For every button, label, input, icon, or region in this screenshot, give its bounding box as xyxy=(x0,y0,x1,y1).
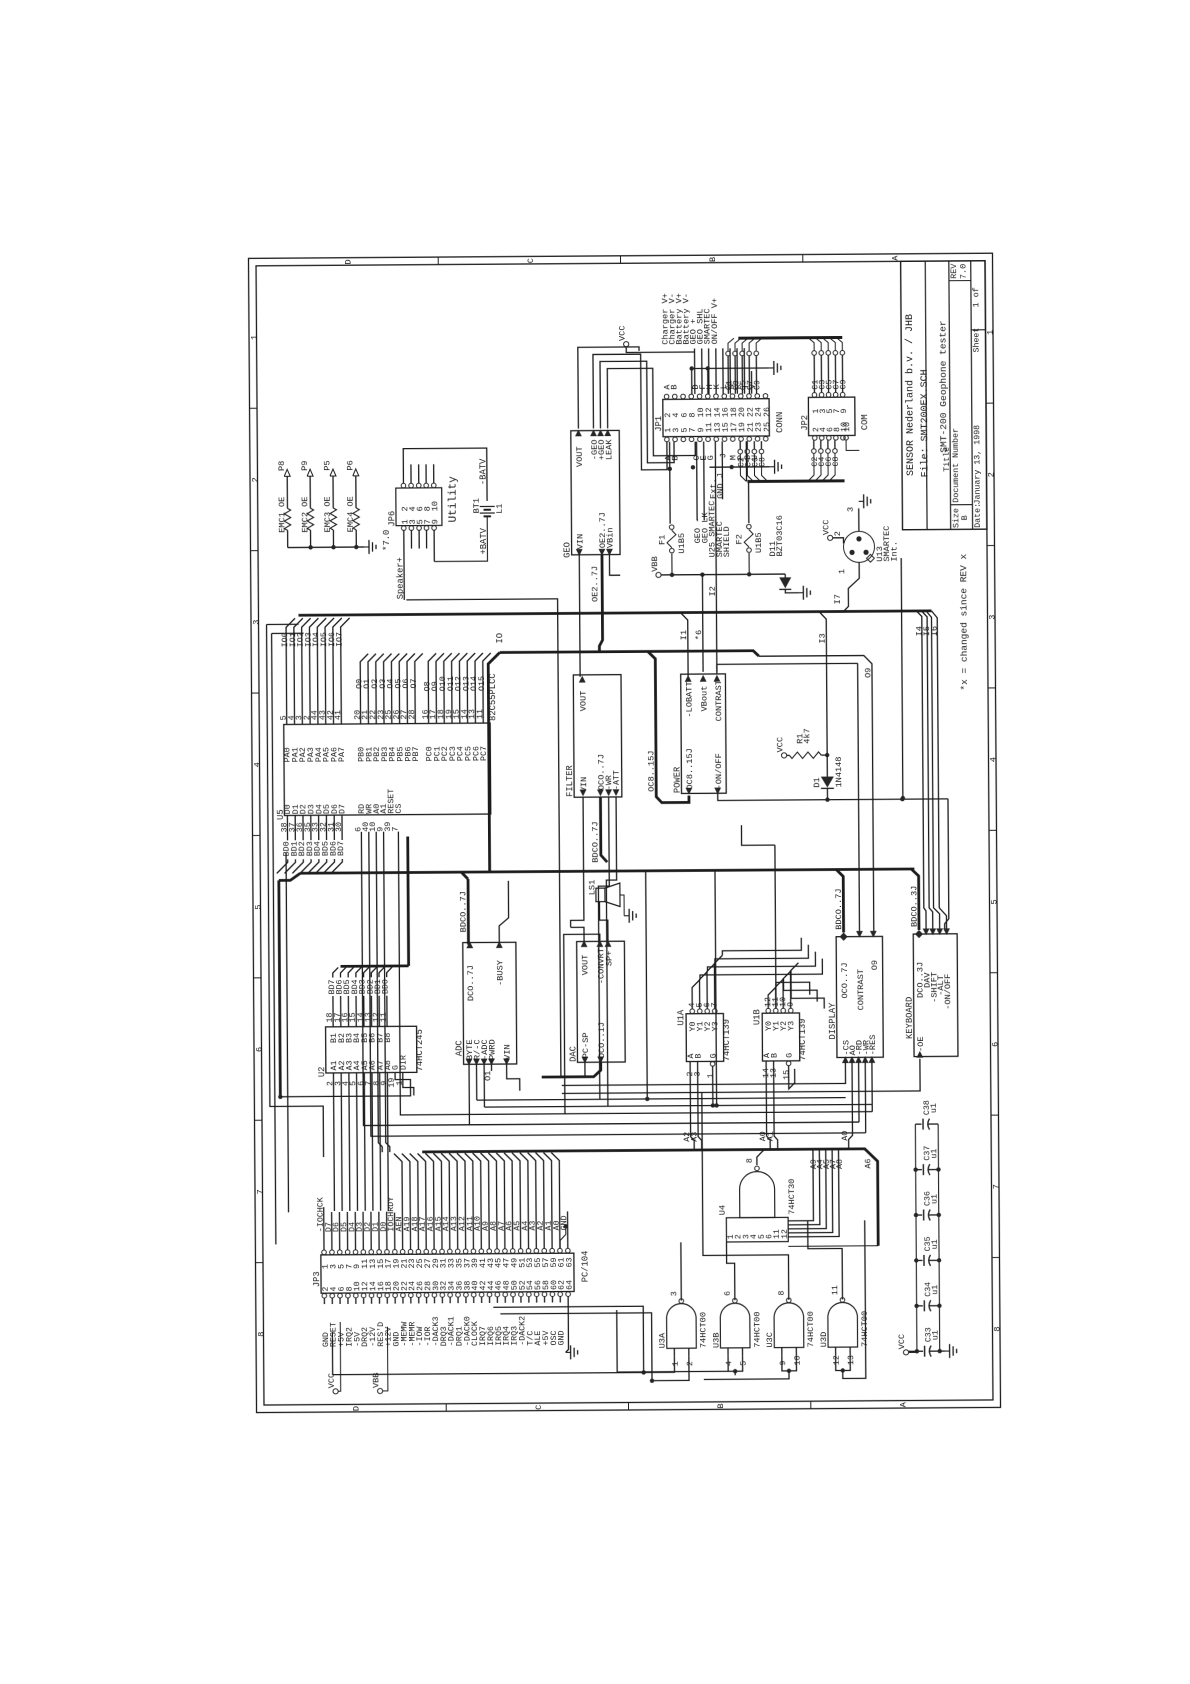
svg-text:U3C: U3C xyxy=(765,1332,775,1348)
connector JP3 PC/104 xyxy=(321,1253,574,1293)
svg-text:U3B: U3B xyxy=(711,1332,721,1348)
svg-text:VIN: VIN xyxy=(579,777,589,793)
svg-text:63: 63 xyxy=(565,1257,574,1267)
svg-text:1: 1 xyxy=(706,1073,715,1078)
block KEYBOARD xyxy=(913,934,958,1057)
svg-text:3: 3 xyxy=(670,1291,679,1296)
svg-text:P6: P6 xyxy=(345,460,355,470)
U3B output up xyxy=(726,1242,734,1300)
FILTER pin VOUT xyxy=(579,676,586,683)
svg-text:U1A: U1A xyxy=(676,1009,686,1026)
svg-text:JP3: JP3 xyxy=(312,1271,322,1287)
svg-text:COM: COM xyxy=(860,414,870,430)
svg-text:u1: u1 xyxy=(930,1149,939,1159)
svg-text:PC-SP: PC-SP xyxy=(581,1032,591,1058)
DAC pin OC0..1J xyxy=(597,1057,604,1064)
svg-text:64: 64 xyxy=(566,1280,575,1290)
svg-text:C8: C8 xyxy=(832,456,841,466)
thick cable bar top xyxy=(738,336,842,340)
A bus taps to U4 inputs xyxy=(788,1149,814,1221)
svg-text:u1: u1 xyxy=(930,1103,939,1113)
svg-text:Utility: Utility xyxy=(448,476,460,523)
gate U3A 74HCT00 xyxy=(666,1304,696,1349)
svg-text:2: 2 xyxy=(833,531,843,536)
JP2 C1..C9 wires xyxy=(812,351,817,356)
wire O9 net down to DISPLAY xyxy=(759,655,874,934)
svg-text:January 13, 1998: January 13, 1998 xyxy=(973,425,983,505)
wire GEO VIN to FILTER VOUT xyxy=(578,555,581,677)
VCC symbol at JP3 xyxy=(333,1389,338,1394)
svg-text:CONTRAST: CONTRAST xyxy=(856,969,866,1010)
capacitor C35 xyxy=(916,1259,922,1261)
connector U13 SMARTEC Int. xyxy=(843,531,874,562)
DAC pin VOUT xyxy=(581,940,588,947)
ADC pin -BUSY xyxy=(496,941,503,948)
frame zone ticks and numbers xyxy=(250,407,257,409)
capacitor C33 xyxy=(917,1350,923,1352)
svg-text:O9: O9 xyxy=(870,960,880,970)
svg-text:4: 4 xyxy=(725,1361,734,1366)
bus BOC0..3J into KEYBOARD xyxy=(911,869,919,930)
svg-text:OC8..15J: OC8..15J xyxy=(685,748,695,789)
FILTER pin VIN xyxy=(580,790,587,797)
svg-text:ON/OFF V+: ON/OFF V+ xyxy=(710,298,720,344)
svg-text:P5: P5 xyxy=(323,460,333,470)
ground cap bank xyxy=(940,1350,945,1352)
svg-text:6: 6 xyxy=(254,1047,264,1052)
svg-text:26: 26 xyxy=(763,407,772,417)
bus BDC0..7J down from FILTER xyxy=(600,797,607,862)
U13 pin 1 wire I7 xyxy=(842,562,859,612)
svg-text:B: B xyxy=(708,257,718,262)
U1B A/B wires to A bus xyxy=(766,1061,770,1150)
bus OC0..1J thick xyxy=(542,1062,601,1077)
svg-text:8: 8 xyxy=(993,1326,1003,1331)
U13 pin 3 to ground xyxy=(858,508,860,531)
wire VCC to +5V xyxy=(338,1322,341,1391)
U3D inputs wires xyxy=(836,1355,851,1371)
bus OE2..7J thick from GEO block xyxy=(599,555,603,652)
svg-text:2: 2 xyxy=(250,477,260,482)
wire VBB to +12V xyxy=(382,1327,388,1391)
svg-text:Y3: Y3 xyxy=(787,1021,796,1031)
FILTER pin WR xyxy=(605,789,612,796)
svg-text:8: 8 xyxy=(746,1158,755,1163)
corridor verticals mid xyxy=(646,871,648,1099)
POWER pin CONTRAST xyxy=(714,675,721,682)
svg-text:74HCT139: 74HCT139 xyxy=(722,1019,732,1061)
VBB symbol xyxy=(656,572,661,577)
svg-text:3: 3 xyxy=(251,620,261,625)
svg-text:A0: A0 xyxy=(841,1131,850,1141)
JP3 A0 wire xyxy=(560,1226,566,1248)
svg-text:U1B5: U1B5 xyxy=(677,533,687,554)
svg-text:VOUT: VOUT xyxy=(579,691,589,712)
svg-text:15: 15 xyxy=(782,1070,791,1080)
svg-text:OCO..7J: OCO..7J xyxy=(840,962,850,998)
JP2 pin10 wire xyxy=(846,440,859,450)
svg-text:u1: u1 xyxy=(932,1330,941,1340)
POWER pin -LOBATT xyxy=(685,675,692,682)
svg-text:Speaker+: Speaker+ xyxy=(396,557,406,599)
svg-text:U3D: U3D xyxy=(819,1332,829,1348)
svg-text:BD0: BD0 xyxy=(382,979,391,994)
svg-text:6: 6 xyxy=(991,1042,1001,1047)
ground D11 xyxy=(798,592,803,594)
mid horizontal nets RD/WR/CS xyxy=(361,828,859,1125)
VCC to cap bank xyxy=(909,1350,917,1352)
wire RESET long xyxy=(332,1330,643,1375)
connector JP2 COM xyxy=(808,397,855,436)
thick cable bar bottom xyxy=(747,479,844,483)
svg-text:B: B xyxy=(694,1053,703,1058)
svg-text:GEO: GEO xyxy=(562,542,572,558)
svg-text:4: 4 xyxy=(252,762,262,767)
port arrow P8 xyxy=(284,469,290,476)
U3C inputs wires xyxy=(782,1355,797,1371)
JP1 top pin wires to signal labels xyxy=(694,348,696,394)
svg-text:POWER: POWER xyxy=(673,766,683,793)
svg-text:VIN: VIN xyxy=(503,1044,513,1060)
border frame inner xyxy=(256,261,993,1405)
svg-text:I2: I2 xyxy=(708,586,718,596)
svg-text:D: D xyxy=(344,259,354,264)
wires JP1 bottom to labels xyxy=(696,442,699,521)
JP3 IOW IOR wires to gates xyxy=(493,1306,643,1373)
U1A G wire xyxy=(712,1066,714,1105)
svg-text:B: B xyxy=(960,515,970,520)
title block date/sheet row xyxy=(971,329,985,331)
ADC bottom wires xyxy=(468,1064,470,1124)
JP1 pin circles and numbers xyxy=(664,394,669,399)
svg-text:VCC: VCC xyxy=(775,737,785,753)
svg-text:JP6: JP6 xyxy=(387,511,397,527)
wire LS1 to ground xyxy=(620,895,624,916)
svg-text:U1B: U1B xyxy=(752,1009,762,1025)
battery BT1 / L1 xyxy=(480,505,495,507)
svg-text:10: 10 xyxy=(794,1355,803,1365)
wire ON/OFF net xyxy=(718,792,948,801)
wire corridor x775 from CONN area xyxy=(775,845,776,1008)
svg-text:A1: A1 xyxy=(767,1131,776,1141)
ADC pin DC0..7J xyxy=(466,941,473,948)
svg-text:PB7: PB7 xyxy=(412,746,421,761)
svg-text:G: G xyxy=(785,1053,794,1058)
svg-text:F2: F2 xyxy=(735,534,745,544)
svg-text:I6: I6 xyxy=(930,626,940,636)
FILTER pin OC0..7J xyxy=(597,789,604,796)
svg-text:BDCO..7J: BDCO..7J xyxy=(834,888,844,929)
U3A inputs wires xyxy=(644,1356,675,1372)
svg-text:12: 12 xyxy=(833,1355,842,1365)
svg-text:KEYBOARD: KEYBOARD xyxy=(905,997,915,1039)
JP6 pin circles top row xyxy=(401,483,406,488)
IC U2 74HCT245 xyxy=(326,1026,417,1073)
svg-text:B: B xyxy=(770,1053,779,1058)
JP1 bottom C2..C8 cable xyxy=(738,449,743,454)
DISPLAY bottom wires xyxy=(562,1062,846,1086)
svg-text:5: 5 xyxy=(740,1361,749,1366)
FILTER VIN wire down xyxy=(570,797,584,927)
resistor EMC4 OE xyxy=(353,508,360,530)
svg-text:1: 1 xyxy=(837,569,847,574)
bus BDC0..7J into ADC xyxy=(467,879,470,944)
svg-text:EMC2 OE: EMC2 OE xyxy=(300,496,310,532)
U4 input pin box xyxy=(726,1217,788,1242)
svg-text:ADC: ADC xyxy=(454,1040,464,1056)
VCC symbol at U13 xyxy=(828,535,833,540)
svg-text:-BUSY: -BUSY xyxy=(496,960,506,986)
fuse F2 xyxy=(745,441,747,481)
block FILTER xyxy=(573,675,622,798)
DISPLAY bottom pins xyxy=(842,1056,849,1063)
svg-text:DCO..7J: DCO..7J xyxy=(466,965,476,1001)
svg-text:U1B5: U1B5 xyxy=(754,532,764,553)
DAC VOUT wire up xyxy=(571,927,584,941)
U3A output to U4 xyxy=(680,1242,682,1300)
svg-text:74HCT245: 74HCT245 xyxy=(415,1029,425,1071)
svg-text:A3: A3 xyxy=(691,1132,700,1142)
svg-text:-LOBATT: -LOBATT xyxy=(684,681,694,717)
wire -BATV from JP6 pin 2 xyxy=(403,448,487,501)
wire F2 to VBB rail xyxy=(748,553,750,574)
svg-text:CONTRAST: CONTRAST xyxy=(714,680,724,721)
port arrow P5 xyxy=(330,469,336,476)
ground JP1 top xyxy=(769,367,774,369)
svg-text:BDCO..7J: BDCO..7J xyxy=(458,891,468,932)
DAC CONVRT wire up xyxy=(564,934,601,1114)
svg-text:PWRD: PWRD xyxy=(488,1039,498,1060)
svg-text:u1: u1 xyxy=(931,1239,940,1249)
svg-text:SHIELD: SHIELD xyxy=(722,526,732,557)
svg-text:-RES: -RES xyxy=(868,1035,878,1056)
svg-text:J: J xyxy=(718,453,728,458)
wire gnd net above JP1 xyxy=(692,367,769,370)
JP3 GND pin 64 to ground xyxy=(565,1296,568,1352)
block ADC xyxy=(463,942,517,1064)
svg-text:P9: P9 xyxy=(300,460,310,470)
block DISPLAY xyxy=(836,936,883,1057)
svg-text:PA7: PA7 xyxy=(338,747,347,762)
cap rail left xyxy=(915,1124,917,1351)
svg-text:74HCT00: 74HCT00 xyxy=(806,1311,816,1347)
KEYBOARD top pins xyxy=(915,930,923,938)
svg-text:VCC: VCC xyxy=(897,1334,907,1350)
JP6 pin circles bottom row xyxy=(401,526,406,531)
capacitor C36 xyxy=(916,1214,922,1216)
title block size/doc/rev row xyxy=(951,504,973,506)
U1A Y output nets long xyxy=(700,959,823,980)
bus BD vertical left corridor xyxy=(279,880,281,1096)
svg-text:C: C xyxy=(534,1405,544,1410)
ground JP1 bottom xyxy=(709,466,769,468)
wire CONTRAST net down to DISPLAY xyxy=(716,664,718,674)
left corridor tops xyxy=(267,623,299,625)
FILTER WR/ATT wires down xyxy=(598,797,611,1099)
bus OC8..15J branch to POWER xyxy=(648,651,689,803)
svg-text:BDCO..7J: BDCO..7J xyxy=(590,821,600,862)
svg-text:VBin: VBin xyxy=(605,527,615,548)
U3B inputs wires xyxy=(728,1356,743,1372)
svg-text:CONN: CONN xyxy=(775,412,785,433)
KEYBOARD OE pin xyxy=(916,1051,923,1058)
svg-text:D1: D1 xyxy=(812,777,822,787)
svg-text:9: 9 xyxy=(430,519,440,524)
svg-text:74HCT139: 74HCT139 xyxy=(798,1018,808,1060)
resistor EMC2 OE xyxy=(307,508,314,530)
svg-text:GND J: GND J xyxy=(716,473,726,499)
svg-text:C9: C9 xyxy=(840,379,849,389)
svg-text:U3A: U3A xyxy=(658,1332,668,1348)
svg-text:F1: F1 xyxy=(657,535,667,545)
port arrow P6 xyxy=(353,469,359,476)
cap rail right xyxy=(938,1124,940,1351)
svg-text:10: 10 xyxy=(430,501,440,511)
svg-text:-ATT: -ATT xyxy=(613,770,622,790)
FILTER pin ATT xyxy=(613,789,620,796)
POWER pin OC8..15J xyxy=(685,788,692,795)
speaker LS1 xyxy=(596,888,605,902)
VBB symbol at JP3 xyxy=(377,1388,382,1393)
svg-text:Sheet: Sheet xyxy=(971,328,981,353)
Speaker+ corridor wire xyxy=(406,599,585,1078)
svg-text:SENSOR Nederland b.v. / JHB: SENSOR Nederland b.v. / JHB xyxy=(904,314,917,476)
ground JP3 xyxy=(566,1351,571,1353)
svg-text:C9: C9 xyxy=(753,380,762,390)
capacitor C34 xyxy=(917,1305,923,1307)
DAC pin PC-SP xyxy=(581,1057,588,1064)
svg-text:VCC: VCC xyxy=(617,325,627,341)
svg-text:74HCT00: 74HCT00 xyxy=(752,1312,762,1348)
svg-text:JP2: JP2 xyxy=(800,415,810,431)
svg-text:74HCT30: 74HCT30 xyxy=(787,1179,797,1215)
svg-text:-ON/OFF: -ON/OFF xyxy=(943,974,953,1010)
horizontal net y1106 xyxy=(484,1105,716,1107)
port arrow P9 xyxy=(307,469,313,476)
IO bus right end taps to KEYBOARD xyxy=(916,611,926,930)
svg-text:LS1: LS1 xyxy=(587,880,597,896)
U1A A/B wires to A bus xyxy=(690,1062,694,1151)
svg-text:4k7: 4k7 xyxy=(802,728,812,744)
svg-text:2: 2 xyxy=(987,472,997,477)
POWER pin VBout xyxy=(700,675,707,682)
IC U1A 74HCT139 xyxy=(686,1014,724,1062)
bus BD thick to left xyxy=(300,869,914,873)
svg-text:BDCO..3J: BDCO..3J xyxy=(909,886,919,927)
wire I1 from IO bus to LOBATT xyxy=(680,613,688,677)
svg-text:L1: L1 xyxy=(495,503,505,513)
svg-text:OE2..7J: OE2..7J xyxy=(590,566,600,602)
U2 DIR wire xyxy=(403,1072,414,1095)
GEO top pins xyxy=(575,429,582,436)
svg-text:1: 1 xyxy=(249,335,259,340)
svg-text:BZT03C16: BZT03C16 xyxy=(775,515,785,556)
svg-text:+BATV: +BATV xyxy=(479,527,489,554)
svg-text:Int.: Int. xyxy=(889,541,899,562)
diode D1 1N4148 xyxy=(826,755,828,776)
svg-text:11: 11 xyxy=(831,1285,840,1295)
svg-text:EMC4 OE: EMC4 OE xyxy=(346,496,356,532)
bus O left elbow down xyxy=(488,652,501,871)
svg-text:1: 1 xyxy=(986,330,996,335)
svg-text:D: D xyxy=(352,1406,362,1411)
wire VOUT to JP1 row xyxy=(578,347,640,429)
svg-text:*x = changed since REV x: *x = changed since REV x xyxy=(958,553,970,690)
border frame outer xyxy=(248,253,1000,1412)
svg-text:9: 9 xyxy=(840,408,849,413)
wire VBout *6 up from rail xyxy=(700,572,704,576)
svg-text:SMT-200 Geophone tester: SMT-200 Geophone tester xyxy=(937,320,949,452)
svg-text:74HCT00: 74HCT00 xyxy=(699,1312,709,1348)
wire I3 from IO bus to R1/D1 xyxy=(819,612,827,756)
svg-text:VCC: VCC xyxy=(821,520,831,536)
connector JP6 Utility xyxy=(396,488,442,526)
svg-text:10: 10 xyxy=(843,422,852,432)
U2 A wires down to JP3 D bus xyxy=(332,1073,335,1211)
svg-text:VOUT: VOUT xyxy=(575,446,585,467)
svg-text:VOUT: VOUT xyxy=(580,955,590,976)
JP1/JP2 cable C1..C9 top xyxy=(726,351,731,356)
VCC symbol gates xyxy=(903,1350,908,1355)
svg-text:IO: IO xyxy=(495,633,505,644)
JP6 top pin wires xyxy=(410,464,412,483)
svg-text:SP+: SP+ xyxy=(604,951,614,967)
diode D11 BZT03C16 xyxy=(784,574,786,577)
svg-text:*6: *6 xyxy=(694,630,704,640)
svg-text:OCO..1J: OCO..1J xyxy=(597,1022,607,1058)
U3C output up xyxy=(702,1092,789,1301)
svg-text:LEAK: LEAK xyxy=(604,439,614,461)
svg-text:PC/104: PC/104 xyxy=(581,1251,591,1283)
DISPLAY top pins xyxy=(840,932,848,940)
svg-text:7: 7 xyxy=(992,1184,1002,1189)
svg-text:VIN: VIN xyxy=(575,534,585,550)
svg-text:DISPLAY: DISPLAY xyxy=(828,1002,838,1040)
svg-text:2: 2 xyxy=(686,1361,695,1366)
DAC pin SP+ xyxy=(605,940,612,947)
svg-text:3: 3 xyxy=(988,615,998,620)
block GEO geophone interface xyxy=(571,430,620,554)
svg-text:3: 3 xyxy=(846,507,856,512)
svg-text:G: G xyxy=(709,1053,718,1058)
GEO bottom pins xyxy=(576,549,583,556)
svg-text:I3: I3 xyxy=(818,633,828,643)
svg-text:25: 25 xyxy=(763,422,772,432)
gate U3D 74HCT00 xyxy=(828,1302,858,1347)
bus O thick horizontal OC0..15 xyxy=(500,651,759,658)
block POWER xyxy=(681,674,727,794)
svg-text:U2: U2 xyxy=(317,1067,327,1078)
wire +BATV xyxy=(434,516,488,561)
ADC bottom pins xyxy=(466,1059,473,1066)
DAC pin -CONVRT xyxy=(596,940,603,947)
ADC BUSY wire xyxy=(499,881,509,943)
svg-text:5: 5 xyxy=(253,904,263,909)
left corridor verticals xyxy=(267,624,324,1157)
svg-text:9: 9 xyxy=(779,1360,788,1365)
svg-text:DIR: DIR xyxy=(399,1055,408,1070)
svg-text:FILTER: FILTER xyxy=(565,764,575,796)
svg-text:B: B xyxy=(716,1403,726,1408)
svg-text:1: 1 xyxy=(672,1361,681,1366)
gate U3B 74HCT00 xyxy=(720,1303,750,1348)
svg-text:O9: O9 xyxy=(863,668,873,678)
capacitor C38 xyxy=(915,1123,921,1125)
wire from CONN region down right corridor xyxy=(901,558,903,798)
JP3 top A-bus fan xyxy=(394,1154,402,1213)
wire I2 Ext GND down to CONTRAST xyxy=(715,441,717,671)
title block xyxy=(901,261,987,530)
